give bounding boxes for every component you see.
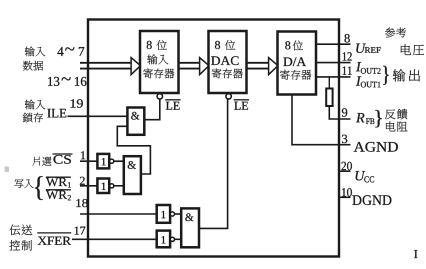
label XFER (overlined) — [37, 233, 71, 245]
block U3: 8-bit D/A converter (8位 D/A 寄存器) — [278, 32, 317, 95]
brace and label: output 输出 — [383, 66, 420, 85]
wire: RFB resistor top connection — [328, 77, 330, 89]
wire: CS input line (pin 1) to inverter B1 — [80, 160, 97, 162]
wire: XFER input line (pin 17) to inverter B4 — [72, 238, 157, 240]
wire: G2 output feedback path to G1 second input — [117, 126, 150, 174]
and-gate G3 (WR2 and XFER transfer control) — [181, 208, 199, 247]
node: LE clock bubble under DAC register — [226, 94, 231, 99]
wire: inverter B1 output to gate G2 — [114, 160, 124, 162]
wire: WR2 input line (pin 18) to inverter B3 — [80, 213, 157, 215]
label: chip select 片选 CS (overlined) — [32, 154, 72, 166]
wire: IOUT1 line to pin 11 — [315, 76, 351, 78]
label IOUT1 — [356, 76, 381, 87]
pin number 20 — [342, 162, 352, 170]
wire: UCC pin 20 tick — [339, 170, 351, 172]
block U2: 8-bit DAC register (8位 DAC 寄存器) — [209, 31, 247, 93]
wire: input data bus arrow into input register — [80, 58, 141, 75]
pin number 11 — [343, 67, 352, 75]
inverter B4 for XFER (pin 17) — [157, 231, 175, 248]
and-gate G1 (ILE gating) — [127, 108, 144, 135]
label: transfer control 传送控制 — [9, 225, 32, 251]
brace and label: feedback resistor 反馈 电阻 — [375, 109, 407, 132]
wire: G3 output up to DAC-register LE bubble — [199, 99, 228, 228]
inverter B3 for WR2 (pin 18) — [157, 205, 175, 223]
label: write 写入 with brace — [14, 176, 42, 200]
inverter B1 for CS (pin 1) — [97, 154, 113, 169]
wire: AGND pin 3 from D/A block bottom — [292, 95, 351, 145]
wire: IOUT2 line to pin 12 — [315, 62, 351, 64]
wire: inverter B2 output to gate G2 — [114, 185, 124, 187]
label LE1 (overlined) — [165, 100, 180, 110]
chip boundary box — [88, 20, 339, 257]
pin number 17 — [75, 227, 86, 235]
label DGND — [352, 195, 391, 205]
resistor RFB (feedback resistor) — [326, 89, 332, 107]
pin number 10 — [342, 188, 352, 196]
wire: bus arrow DAC register to D/A converter — [247, 58, 279, 75]
label: input latch 输入锁存 — [23, 100, 46, 123]
pin number 19 — [71, 99, 83, 107]
wire: UREF line to pin 8 — [315, 43, 351, 45]
pin number 9 — [342, 108, 347, 116]
wire: WR1 input line (pin 2) to inverter B2 — [80, 185, 97, 187]
and-gate G2 (CS and WR1) — [124, 156, 141, 194]
label IOUT2 — [356, 62, 381, 74]
label: reference voltage 参考 电压 — [385, 28, 424, 56]
pin number 3 — [342, 135, 347, 143]
wire: inverter B3 output to gate G3 — [175, 213, 182, 215]
pin label 13~16 — [48, 77, 86, 86]
label WR1 (overlined) — [46, 177, 71, 187]
stray printed mark I (bottom right) — [414, 250, 417, 258]
wire: ILE input line (pin 19) to AND gate G1 — [68, 115, 128, 117]
pin label 4~7 — [57, 47, 84, 56]
label LE2 (overlined) — [234, 100, 249, 110]
node: LE clock bubble under input register — [157, 94, 162, 99]
wire: G1 output up to input-register LE bubble — [144, 99, 160, 119]
pin number 8 — [345, 34, 350, 42]
wire: DGND pin 10 tick — [339, 196, 351, 198]
label RFB — [356, 113, 374, 124]
label AGND — [354, 142, 398, 152]
label ILE — [47, 109, 66, 118]
block U1: 8-bit input register (8位 输入 寄存器) — [140, 31, 179, 93]
label WR2 (overlined) — [46, 190, 71, 201]
pin number 12 — [343, 52, 352, 60]
wire: RFB resistor bottom to pin 9 — [329, 106, 350, 120]
wire: bus arrow input register to DAC register — [179, 58, 210, 75]
pin number 1 — [81, 151, 85, 159]
pin number 2 — [80, 177, 85, 185]
wire: inverter B4 output to gate G3 — [175, 238, 182, 240]
inverter B2 for WR1 (pin 2) — [97, 179, 113, 194]
label: input data 输入数据 — [23, 46, 45, 70]
faint scan speck left edge — [5, 167, 10, 173]
pin number 18 — [76, 199, 87, 207]
label UREF — [356, 44, 380, 53]
label UCC — [356, 171, 375, 182]
